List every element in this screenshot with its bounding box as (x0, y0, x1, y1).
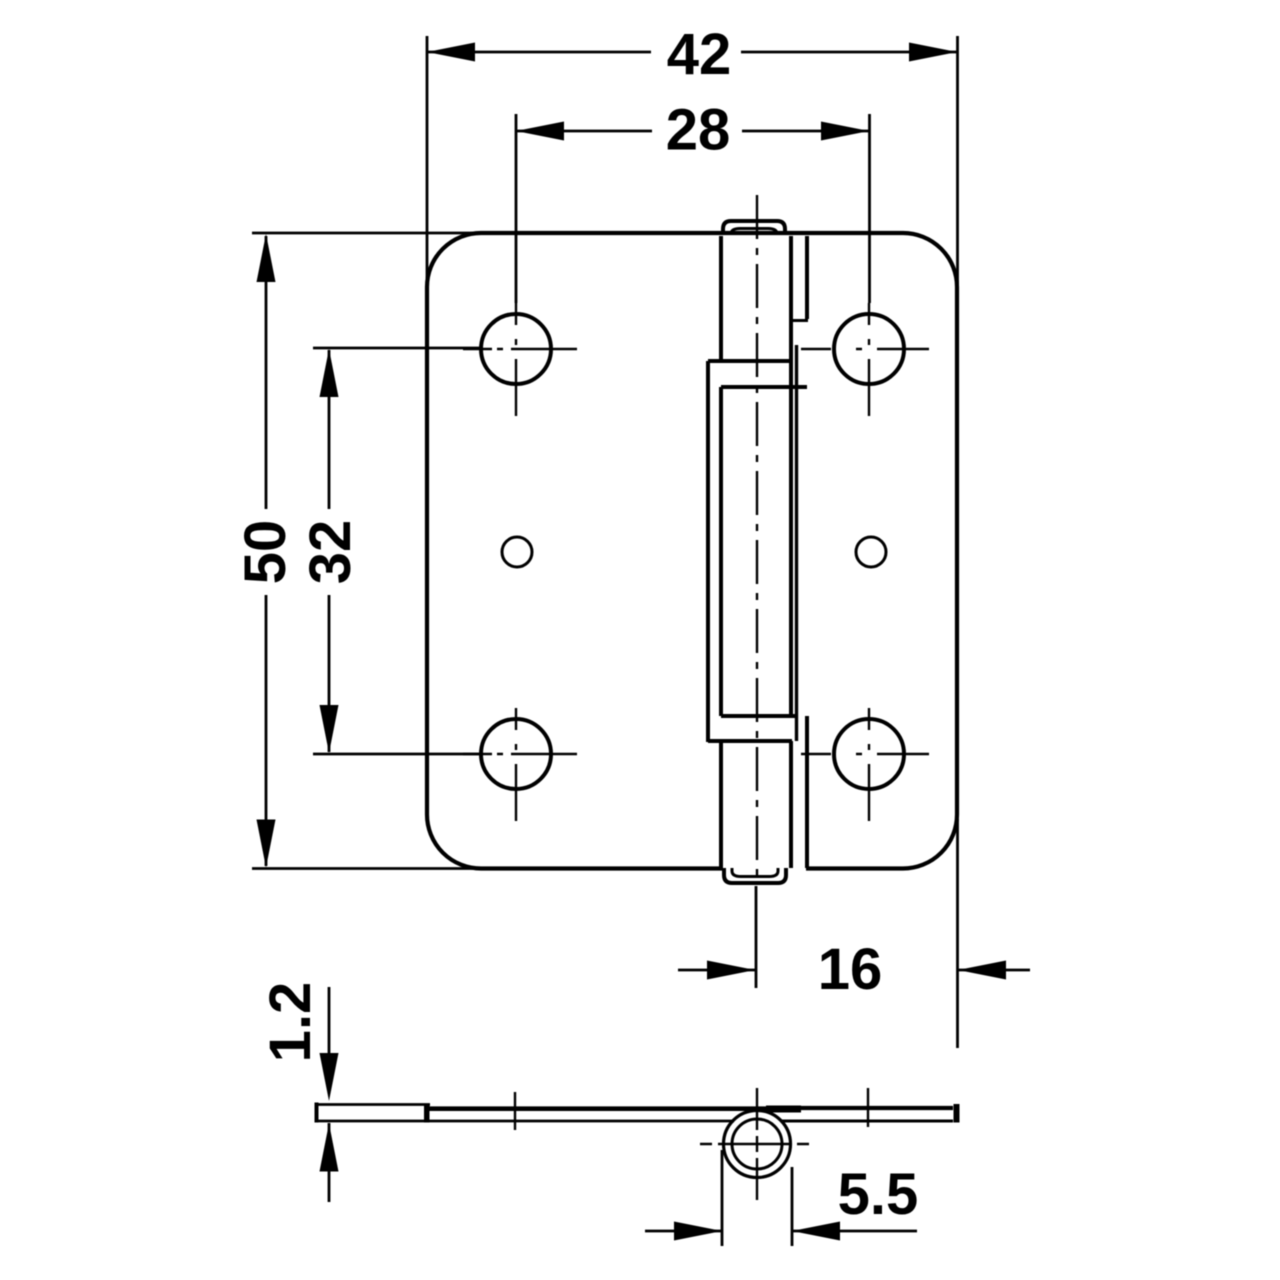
svg-text:16: 16 (818, 937, 883, 1002)
svg-text:28: 28 (666, 98, 731, 163)
svg-text:5.5: 5.5 (838, 1162, 919, 1227)
svg-text:50: 50 (233, 520, 298, 585)
svg-text:1.2: 1.2 (258, 982, 323, 1063)
svg-text:32: 32 (298, 520, 363, 585)
svg-text:42: 42 (667, 22, 732, 87)
